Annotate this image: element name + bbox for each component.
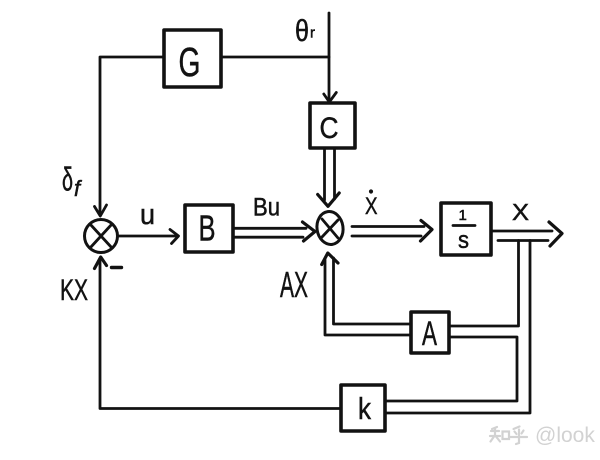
svg-text:X: X bbox=[365, 193, 378, 220]
svg-text:C: C bbox=[320, 112, 339, 145]
svg-text:θ: θ bbox=[295, 13, 309, 48]
svg-text:A: A bbox=[422, 315, 437, 353]
svg-text:Bu: Bu bbox=[253, 194, 280, 222]
svg-text:AX: AX bbox=[280, 264, 308, 305]
svg-text:B: B bbox=[199, 208, 216, 249]
svg-text:u: u bbox=[140, 199, 155, 231]
svg-text:X: X bbox=[512, 199, 529, 225]
svg-text:s: s bbox=[458, 227, 469, 254]
svg-text:k: k bbox=[358, 391, 371, 426]
svg-text:KX: KX bbox=[60, 274, 88, 307]
svg-text:r: r bbox=[310, 25, 315, 42]
svg-text:@look: @look bbox=[535, 424, 595, 447]
svg-text:1: 1 bbox=[459, 207, 467, 224]
svg-text:δ: δ bbox=[62, 161, 73, 198]
svg-text:G: G bbox=[179, 39, 201, 85]
svg-text:f: f bbox=[74, 176, 83, 201]
